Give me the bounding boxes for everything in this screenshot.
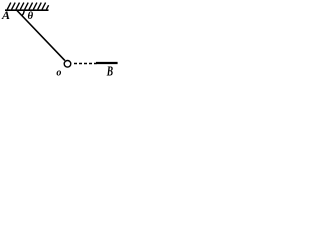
svg-text:B: B <box>106 63 113 79</box>
svg-text:o: o <box>56 68 61 79</box>
dashed line from ring to B <box>74 63 97 65</box>
svg-text:A: A <box>1 8 10 22</box>
ceiling hatching <box>7 3 48 10</box>
angle arc theta <box>22 10 24 15</box>
ring o <box>64 61 71 68</box>
solid segment at B <box>96 62 118 64</box>
string from A to ring <box>17 11 65 61</box>
ceiling line at A <box>5 9 49 11</box>
svg-text:θ: θ <box>28 10 34 22</box>
